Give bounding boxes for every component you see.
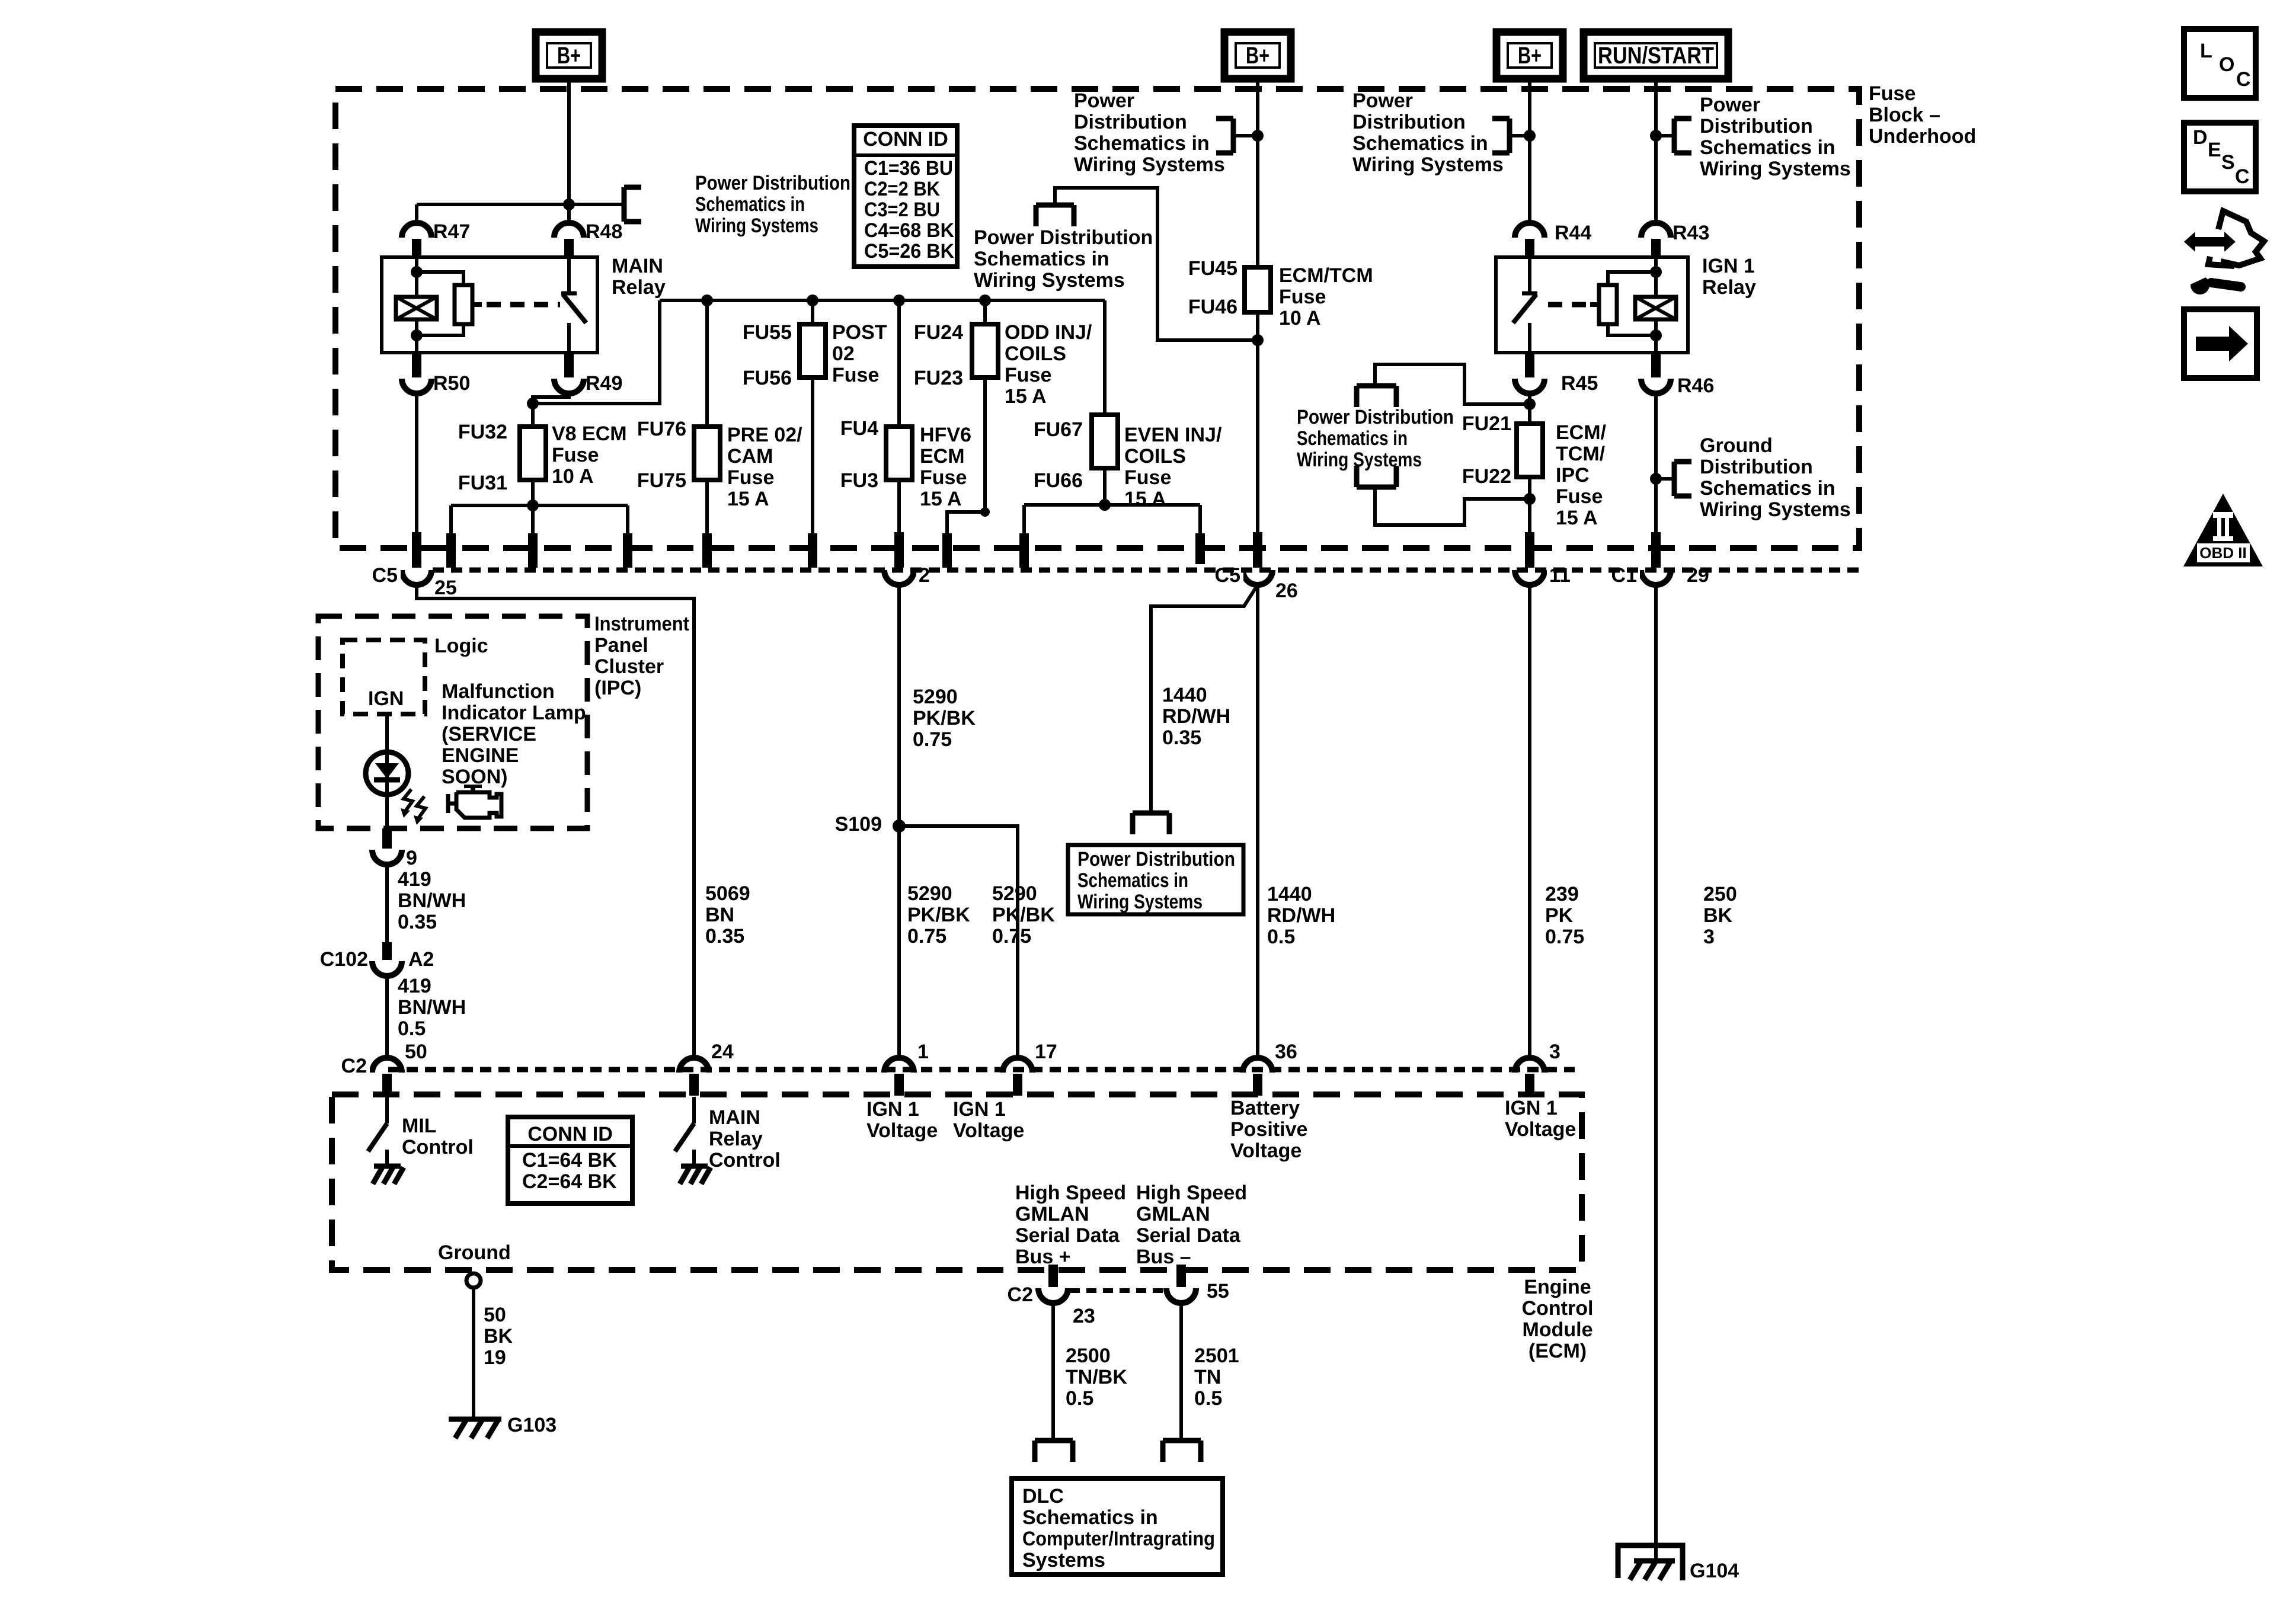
svg-text:Distribution: Distribution <box>1074 111 1187 133</box>
svg-text:IGN: IGN <box>368 687 404 710</box>
reference stub bracket (B+3) <box>1507 119 1512 153</box>
power symbol RUN/START (IGN 1 relay coil feed) <box>1584 32 1728 79</box>
svg-text:0.5: 0.5 <box>1194 1387 1222 1410</box>
svg-text:0.35: 0.35 <box>1162 726 1201 749</box>
svg-text:Wiring Systems: Wiring Systems <box>1700 498 1851 521</box>
svg-text:Schematics in: Schematics in <box>1077 869 1188 892</box>
wire C5/26 to pin 36 <box>1256 585 1259 1058</box>
svg-text:5290: 5290 <box>907 882 952 905</box>
junction FU23 jog <box>980 507 990 517</box>
svg-text:Engine: Engine <box>1524 1276 1591 1298</box>
svg-text:C1=36 BU: C1=36 BU <box>864 157 953 180</box>
svg-text:IGN 1: IGN 1 <box>1702 255 1755 277</box>
svg-text:Power Distribution: Power Distribution <box>974 226 1153 249</box>
svg-text:0.5: 0.5 <box>398 1017 426 1040</box>
connector pin 9 <box>372 850 402 865</box>
svg-text:FU46: FU46 <box>1188 296 1237 318</box>
svg-text:R47: R47 <box>433 220 470 243</box>
wire bus drop centre <box>531 505 535 536</box>
wire B+1 down to junction <box>567 79 571 204</box>
engine pictogram <box>464 785 482 788</box>
svg-text:C5: C5 <box>372 564 398 587</box>
svg-text:Malfunction: Malfunction <box>442 680 555 703</box>
connector pin 55 <box>1166 1288 1196 1303</box>
svg-text:0.75: 0.75 <box>913 728 952 751</box>
svg-text:5069: 5069 <box>705 882 750 905</box>
wire FU66 down <box>1103 468 1107 505</box>
svg-text:BN/WH: BN/WH <box>398 996 466 1019</box>
junction on B+1 wire <box>563 199 575 210</box>
svg-text:PRE 02/: PRE 02/ <box>727 424 802 446</box>
svg-text:IGN 1: IGN 1 <box>866 1098 919 1121</box>
reference stub bracket (ground dist) <box>1672 462 1677 496</box>
svg-text:FU75: FU75 <box>637 469 686 492</box>
wire R45 to FU21 <box>1528 393 1531 424</box>
junction IGN1 coil top <box>1650 266 1662 278</box>
wire B+1 junction to R48 <box>567 204 571 224</box>
MAIN relay control ground <box>681 1164 708 1169</box>
wire FU75 down <box>705 480 709 536</box>
label C5 (pin26) <box>1178 564 1243 585</box>
connector C2 pin 23 <box>1038 1288 1068 1303</box>
reference box Power Distribution Schematics in Wiring Systems <box>1068 845 1243 914</box>
svg-text:Wiring Systems: Wiring Systems <box>1297 449 1422 471</box>
pin stub C5/25 <box>412 532 421 568</box>
svg-text:Power Distribution: Power Distribution <box>1297 406 1454 428</box>
wire pin55 to DLC <box>1179 1303 1183 1441</box>
svg-text:Wiring Systems: Wiring Systems <box>1700 158 1851 180</box>
svg-text:D: D <box>2193 126 2208 149</box>
svg-text:Schematics in: Schematics in <box>1700 477 1835 500</box>
power symbol B+ (ECM/TCM fuse feed) <box>1224 32 1291 79</box>
pin stub FU75 <box>702 533 712 568</box>
svg-text:R44: R44 <box>1555 222 1591 244</box>
connector pin 1 <box>884 1058 914 1073</box>
pin stub FU56 <box>808 533 817 568</box>
svg-text:Panel: Panel <box>594 634 648 657</box>
svg-text:S: S <box>2221 151 2235 174</box>
svg-text:17: 17 <box>1035 1041 1057 1063</box>
svg-text:0.75: 0.75 <box>992 925 1031 948</box>
svg-text:FU21: FU21 <box>1462 412 1511 435</box>
svg-text:Power: Power <box>1352 89 1413 112</box>
MAIN relay actuation dashed link <box>487 302 560 308</box>
MIL control switch <box>385 1097 389 1124</box>
svg-text:GMLAN: GMLAN <box>1015 1203 1089 1225</box>
MAIN relay coil wire top <box>415 257 418 297</box>
wire R50 to C5 pin 25 <box>415 393 418 533</box>
svg-text:Indicator Lamp: Indicator Lamp <box>442 702 586 724</box>
svg-text:15 A: 15 A <box>1124 488 1166 510</box>
fuse FU32/FU31 V8 ECM <box>520 427 546 480</box>
wire R46 down to C1/29 <box>1654 393 1658 533</box>
svg-text:COILS: COILS <box>1005 343 1066 365</box>
junction IGN1 coil bottom <box>1650 329 1662 341</box>
svg-text:HFV6: HFV6 <box>920 424 971 446</box>
svg-text:C: C <box>2236 68 2251 91</box>
svg-text:Computer/Intragrating: Computer/Intragrating <box>1022 1528 1215 1550</box>
svg-text:Power Distribution: Power Distribution <box>1077 848 1235 870</box>
junction coil top <box>411 266 423 278</box>
svg-text:24: 24 <box>711 1041 734 1063</box>
svg-text:RD/WH: RD/WH <box>1267 904 1335 927</box>
svg-text:G104: G104 <box>1690 1560 1739 1582</box>
wire bus drop right <box>626 505 629 536</box>
connector pin 17 <box>1003 1058 1032 1073</box>
junction FU22 bottom <box>1524 493 1536 505</box>
svg-text:TN/BK: TN/BK <box>1066 1366 1127 1388</box>
IGN1 relay resistor branch <box>1608 272 1656 285</box>
wire header to R47 <box>415 204 418 224</box>
wire FU66 drop right <box>1198 505 1202 536</box>
svg-text:BK: BK <box>484 1325 513 1347</box>
svg-text:C2=64 BK: C2=64 BK <box>522 1170 617 1193</box>
IGN1 relay actuation dashed link <box>1548 302 1588 308</box>
svg-text:FU24: FU24 <box>914 321 963 344</box>
junction FU32 top <box>527 398 539 409</box>
CONN ID table (ECM) <box>508 1117 632 1204</box>
svg-text:419: 419 <box>398 868 431 891</box>
wire junction to fuse bus riser <box>533 300 660 404</box>
label 2 <box>916 564 933 585</box>
ground G103 <box>449 1417 501 1422</box>
svg-text:250: 250 <box>1703 883 1737 905</box>
svg-text:Battery: Battery <box>1230 1097 1300 1119</box>
IGN1 relay coil (solenoid) <box>1635 297 1676 319</box>
svg-text:1440: 1440 <box>1267 883 1312 905</box>
junction B+2 reference <box>1252 130 1264 142</box>
wire FU32 junction to fuse <box>531 404 535 427</box>
svg-text:Relay: Relay <box>612 276 666 299</box>
svg-text:PK/BK: PK/BK <box>907 904 970 926</box>
svg-text:3: 3 <box>1549 1041 1560 1063</box>
wire junction to bracket (B+3) <box>1510 134 1530 137</box>
connector R47 <box>402 223 431 238</box>
wire B+3 down <box>1528 79 1531 224</box>
svg-text:Schematics in: Schematics in <box>1074 132 1210 155</box>
reference stub bracket (mid) <box>1036 203 1074 208</box>
svg-text:9: 9 <box>406 847 417 869</box>
wire C102 to pin 50 <box>385 976 389 1058</box>
svg-text:ECM/TCM: ECM/TCM <box>1279 264 1373 287</box>
svg-text:B+: B+ <box>557 43 581 69</box>
wire R49 to FU32 junction <box>533 393 569 404</box>
svg-text:R45: R45 <box>1561 372 1598 395</box>
svg-text:Control: Control <box>402 1136 474 1158</box>
svg-text:Fuse: Fuse <box>1005 364 1051 386</box>
junction FU66 bus <box>1099 499 1111 511</box>
svg-text:R49: R49 <box>586 372 622 395</box>
svg-text:DLC: DLC <box>1022 1485 1064 1507</box>
power symbol B+ (IGN 1 relay feed) <box>1496 32 1563 79</box>
svg-text:L: L <box>2200 40 2212 62</box>
svg-text:R43: R43 <box>1673 222 1709 244</box>
reference stub bracket (header right end) <box>622 187 627 222</box>
svg-text:FU66: FU66 <box>1034 469 1083 492</box>
svg-text:Wiring Systems: Wiring Systems <box>974 269 1125 292</box>
svg-text:0.75: 0.75 <box>907 925 946 948</box>
pin stub C1/29 <box>1651 532 1661 568</box>
fuse block - underhood dashed boundary <box>335 89 1859 548</box>
svg-text:Systems: Systems <box>1022 1549 1105 1571</box>
svg-text:C1=64 BK: C1=64 BK <box>522 1149 617 1172</box>
IGN1 relay coil wire <box>1654 257 1658 297</box>
svg-text:CONN ID: CONN ID <box>527 1123 613 1145</box>
svg-text:C: C <box>2235 165 2250 188</box>
svg-text:FU31: FU31 <box>458 472 507 494</box>
wire S109 to pin 1 <box>897 826 901 1058</box>
svg-text:FU55: FU55 <box>743 321 792 344</box>
svg-text:BK: BK <box>1703 904 1733 927</box>
DLC reference box <box>1012 1478 1223 1574</box>
svg-text:Fuse: Fuse <box>1124 466 1171 489</box>
wire bus to FU55 <box>811 300 814 324</box>
label C1 <box>1607 564 1640 585</box>
svg-text:0.75: 0.75 <box>1545 926 1584 948</box>
connector R44 <box>1515 223 1544 238</box>
svg-text:FU67: FU67 <box>1034 418 1083 441</box>
svg-text:2500: 2500 <box>1066 1345 1111 1367</box>
svg-text:Distribution: Distribution <box>1352 111 1466 133</box>
ground G104 <box>1634 1558 1675 1564</box>
svg-text:High Speed: High Speed <box>1136 1182 1247 1204</box>
fuse FU24/FU23 ODD INJ/COILS <box>972 324 998 377</box>
svg-text:15 A: 15 A <box>1556 507 1598 529</box>
reference stub bracket (RUN/START) <box>1672 119 1677 153</box>
svg-text:(SERVICE: (SERVICE <box>442 723 536 745</box>
wire FU56 down <box>811 377 814 536</box>
svg-text:Schematics in: Schematics in <box>695 193 805 216</box>
svg-text:FU4: FU4 <box>840 417 878 440</box>
svg-text:COILS: COILS <box>1124 445 1186 468</box>
wire MIL lamp to pin 9 <box>385 795 389 830</box>
wire junction to bracket (B+2) <box>1233 134 1258 137</box>
connector R45 <box>1525 354 1534 377</box>
pin stub pin2 <box>894 532 904 568</box>
pin stub FU66 right <box>1195 533 1205 568</box>
svg-text:2501: 2501 <box>1194 1345 1239 1367</box>
connector R46 <box>1651 354 1661 377</box>
svg-text:RUN/START: RUN/START <box>1598 43 1714 69</box>
svg-text:A2: A2 <box>408 948 434 971</box>
label 29 <box>1684 564 1713 585</box>
wire FU31 to lower bus <box>531 480 535 505</box>
pin stub (centre drop) <box>528 533 538 568</box>
svg-text:High Speed: High Speed <box>1015 1182 1126 1204</box>
wire pin25 jog to IPC feed <box>417 585 694 1058</box>
junction B+3 reference <box>1524 130 1536 142</box>
svg-text:Wiring Systems: Wiring Systems <box>1074 153 1225 176</box>
ECM ground pin (circle) <box>466 1273 481 1288</box>
svg-text:Relay: Relay <box>1702 276 1756 299</box>
connector C5 pin 25 <box>402 570 431 585</box>
svg-text:O: O <box>2219 53 2234 76</box>
FU66 distribution bus <box>1024 503 1200 507</box>
label C5 (pin25) <box>367 564 401 585</box>
svg-text:R48: R48 <box>586 220 622 243</box>
svg-text:Block –: Block – <box>1869 104 1940 126</box>
wire ground pin to G103 <box>472 1288 475 1419</box>
MAIN relay switch <box>567 257 571 293</box>
svg-text:Cluster: Cluster <box>594 655 664 678</box>
svg-text:MAIN: MAIN <box>709 1106 760 1129</box>
pin stub pin 11 <box>1525 532 1534 568</box>
svg-text:Voltage: Voltage <box>866 1119 938 1142</box>
svg-text:FU23: FU23 <box>914 367 963 389</box>
svg-text:5290: 5290 <box>992 882 1037 905</box>
svg-text:R46: R46 <box>1677 375 1714 397</box>
splice S109 <box>893 820 906 833</box>
Logic dashed box <box>343 640 425 714</box>
junction FU46/mid <box>1252 334 1264 346</box>
svg-text:15 A: 15 A <box>727 488 769 510</box>
svg-text:19: 19 <box>484 1346 506 1369</box>
junction FU21 top <box>1524 398 1536 410</box>
svg-text:Schematics in: Schematics in <box>1297 427 1408 450</box>
svg-text:FU22: FU22 <box>1462 465 1511 488</box>
svg-text:0.35: 0.35 <box>398 911 437 933</box>
svg-text:Schematics in: Schematics in <box>1022 1506 1158 1529</box>
svg-text:FU76: FU76 <box>637 418 686 440</box>
connector C1 pin 29 <box>1641 570 1671 585</box>
reference stub bracket (DLC -) <box>1163 1438 1201 1443</box>
connector pin 2 <box>884 570 914 585</box>
fuse FU21/FU22 ECM/TCM/IPC <box>1517 424 1543 477</box>
junction bus FU55 <box>807 295 818 306</box>
svg-text:IGN 1: IGN 1 <box>953 1098 1006 1121</box>
wire pin9 to C102 <box>385 865 389 943</box>
svg-text:Underhood: Underhood <box>1869 125 1976 148</box>
svg-text:ODD INJ/: ODD INJ/ <box>1005 321 1092 344</box>
svg-text:CAM: CAM <box>727 445 773 468</box>
svg-text:R50: R50 <box>433 372 470 395</box>
svg-text:B+: B+ <box>1246 43 1269 69</box>
svg-text:POST: POST <box>832 321 887 344</box>
svg-text:0.5: 0.5 <box>1267 926 1295 948</box>
reference stub bracket (FU21 top) <box>1357 383 1396 389</box>
pin stub (IPC exit) <box>382 828 392 849</box>
svg-text:0.5: 0.5 <box>1066 1387 1093 1410</box>
svg-text:Fuse: Fuse <box>1556 485 1603 508</box>
Engine Control Module dashed box <box>332 1094 1582 1270</box>
svg-text:25: 25 <box>434 577 457 599</box>
IGN 1 relay box <box>1496 257 1688 353</box>
svg-text:Voltage: Voltage <box>1505 1118 1576 1141</box>
svg-text:Fuse: Fuse <box>1279 286 1326 308</box>
svg-text:0.35: 0.35 <box>705 925 744 948</box>
pin stub pin 55 <box>1176 1265 1186 1287</box>
connector C5 pin 26 <box>1243 570 1272 585</box>
connector pin 11 <box>1515 570 1544 585</box>
svg-text:E: E <box>2208 139 2221 161</box>
svg-text:Wiring Systems: Wiring Systems <box>1352 153 1504 176</box>
svg-text:(IPC): (IPC) <box>594 677 641 699</box>
svg-text:1: 1 <box>917 1041 929 1063</box>
svg-text:Fuse: Fuse <box>832 364 879 386</box>
svg-text:50: 50 <box>405 1041 427 1063</box>
svg-text:Bus +: Bus + <box>1015 1246 1071 1268</box>
junction RUN/START reference <box>1650 130 1662 142</box>
wire pin2 to S109 <box>897 585 901 826</box>
CONN ID table (fuse block) <box>854 126 957 267</box>
wire bus to FU76 <box>705 300 709 427</box>
pin stub C102 <box>382 942 392 960</box>
svg-text:Power: Power <box>1700 94 1760 116</box>
DESC icon <box>2184 123 2256 191</box>
Instrument Panel Cluster dashed box <box>318 616 587 828</box>
svg-text:PK: PK <box>1545 904 1574 927</box>
svg-text:PK/BK: PK/BK <box>913 707 976 729</box>
MAIN relay resistor tick <box>472 302 482 307</box>
svg-text:23: 23 <box>1073 1305 1095 1327</box>
svg-text:C102: C102 <box>320 948 368 971</box>
wire mid reference <box>1055 188 1258 340</box>
ground G104 splice frame <box>1618 1545 1683 1580</box>
label C2 (pin50) <box>337 1056 370 1076</box>
IGN1 relay resistor tick <box>1590 302 1599 307</box>
svg-text:Serial Data: Serial Data <box>1136 1224 1241 1247</box>
power symbol B+ (left, MAIN relay feed) <box>536 32 602 79</box>
svg-text:C3=2 BU: C3=2 BU <box>864 199 940 221</box>
wire junction to bracket (RUN/START) <box>1656 134 1674 137</box>
reference stub bracket (B+2) <box>1231 119 1236 153</box>
svg-text:IGN 1: IGN 1 <box>1505 1097 1558 1119</box>
reference stub bracket (FU21 bottom) <box>1357 485 1396 490</box>
fuse block connector row <box>433 568 1859 573</box>
svg-text:ENGINE: ENGINE <box>442 744 519 767</box>
svg-text:S109: S109 <box>835 813 882 836</box>
svg-text:C2=2 BK: C2=2 BK <box>864 178 940 200</box>
svg-text:CONN ID: CONN ID <box>863 128 948 151</box>
svg-text:Distribution: Distribution <box>1700 115 1813 137</box>
connector pin 3 <box>1515 1058 1544 1073</box>
wire junction to bracket (ground dist) <box>1656 477 1674 481</box>
svg-text:Schematics in: Schematics in <box>1352 132 1488 155</box>
svg-text:ECM/: ECM/ <box>1556 421 1607 444</box>
svg-text:3: 3 <box>1703 926 1715 948</box>
fuse FU55/FU56 POST O2 <box>800 324 826 377</box>
wire FU3 to pin 2 <box>897 480 901 533</box>
svg-text:02: 02 <box>832 343 855 365</box>
svg-text:Wiring Systems: Wiring Systems <box>1077 891 1203 913</box>
MIL control ground <box>374 1164 401 1169</box>
fuse FU67/FU66 EVEN INJ/COILS <box>1092 415 1118 468</box>
wire RUN/START down <box>1654 79 1658 224</box>
svg-text:TN: TN <box>1194 1366 1221 1388</box>
reference stub bracket (1440 branch) <box>1133 811 1169 816</box>
svg-text:FU3: FU3 <box>840 469 878 492</box>
wire bus to FU4 <box>897 300 901 427</box>
LOC icon <box>2184 29 2256 98</box>
OBD II icon <box>2183 494 2263 566</box>
IGN1 relay resistor <box>1599 285 1617 324</box>
junction bus FU76 <box>701 295 713 306</box>
MAIN relay coil wire bottom <box>415 319 418 353</box>
connector C2 pin 50 <box>372 1058 402 1073</box>
MAIN relay resistor <box>455 285 472 324</box>
FU21 reference loop top <box>1375 364 1530 404</box>
svg-text:Control: Control <box>709 1149 781 1172</box>
svg-text:Power: Power <box>1074 89 1134 112</box>
svg-text:OBD II: OBD II <box>2199 544 2246 562</box>
MAIN relay suppression resistor branch <box>417 272 463 285</box>
label 11 <box>1547 564 1574 585</box>
svg-text:Wiring Systems: Wiring Systems <box>695 215 818 237</box>
svg-text:Fuse: Fuse <box>727 466 774 489</box>
svg-text:Fuse: Fuse <box>920 466 967 489</box>
fuse FU45/FU46 ECM/TCM <box>1245 267 1271 312</box>
junction coil bottom <box>411 329 423 341</box>
